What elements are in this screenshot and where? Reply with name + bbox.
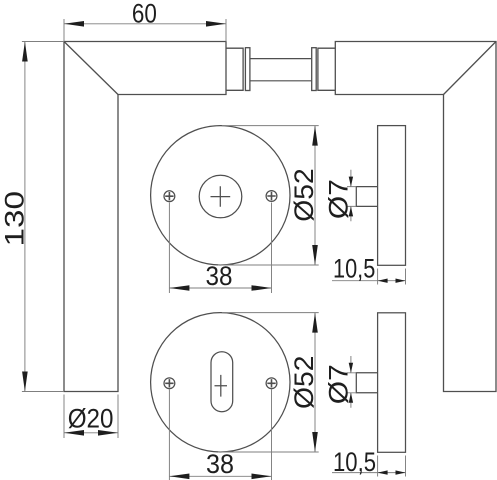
svg-text:Ø7: Ø7 — [323, 364, 353, 404]
rosette 2 right screw — [266, 378, 277, 389]
rosette 2 dim 38 arrow left — [169, 474, 189, 480]
dimension D20 line — [64, 432, 118, 434]
rosette 1 dim 38 extension lines — [169, 203, 271, 294]
rosette 1 left screw — [164, 191, 175, 202]
left neck step — [226, 48, 243, 90]
dimension D20 arrow right — [98, 430, 118, 436]
dimension 130 extension lines — [22, 42, 64, 392]
rosette 1 dim 38 arrow left — [169, 285, 189, 291]
side view 1 dim 10,5 arrow left — [378, 279, 388, 283]
rosette 1 D52 arrow up — [312, 126, 318, 146]
side view 2 D7 extension lines — [347, 373, 356, 393]
dimension D20 extension lines — [64, 395, 118, 439]
side view 1 rosette body — [378, 126, 406, 266]
rosette 2 D52 arrow up — [312, 313, 318, 333]
rosette 1 inner circle — [199, 175, 242, 218]
left handle outline (plan view) — [64, 42, 226, 392]
side view 1 dim 10,5 extension lines — [378, 269, 406, 285]
rosette 1 center cross — [211, 186, 231, 207]
side view 2 spindle stub — [356, 373, 377, 393]
dimension D20 arrow left — [64, 430, 84, 436]
rosette 1 dim 38 line — [169, 287, 271, 289]
svg-text:Ø52: Ø52 — [289, 168, 319, 222]
side view 2 D7 dimension lines — [350, 356, 352, 408]
rosette 1 D52 extension lines — [218, 126, 319, 265]
rosette 2 D52 extension lines — [218, 313, 319, 452]
svg-text:Ø20: Ø20 — [68, 403, 114, 433]
side view 1 spindle stub — [356, 187, 377, 207]
side view 2 dim 10,5 arrow left — [378, 470, 388, 474]
side view 1 D7 dimension lines — [350, 170, 352, 222]
rosette 1 right screw — [266, 191, 277, 202]
rosette 2 left screw — [164, 378, 175, 389]
side view 2 D7 arrow up — [349, 393, 353, 403]
right handle miter line — [444, 42, 497, 95]
rosette 2 outer circle — [151, 313, 290, 452]
dimension 60 line — [64, 23, 226, 25]
left handle miter line — [64, 42, 118, 95]
dimension 60 extension lines — [64, 19, 226, 42]
left collar — [245, 48, 250, 91]
rosette 1 outer circle — [151, 126, 290, 265]
right neck step — [318, 48, 335, 90]
svg-text:10,5: 10,5 — [333, 253, 375, 283]
right handle outline (plan view) — [335, 42, 496, 392]
side view 2 dim 10,5 extension lines — [378, 456, 406, 477]
svg-text:38: 38 — [206, 261, 233, 291]
svg-text:Ø7: Ø7 — [323, 179, 353, 219]
svg-text:130: 130 — [0, 191, 30, 247]
side view 1 D7 extension lines — [347, 187, 356, 207]
rosette 2 center cross — [215, 375, 228, 397]
rosette 2 D52 dimension line — [314, 313, 316, 452]
dimension 130 line — [24, 42, 26, 392]
side view 1 D7 arrow up — [349, 206, 353, 216]
side view 2 dim 10,5 arrow right — [396, 470, 406, 474]
dimension 130 arrow down — [22, 372, 28, 392]
side view 2 D7 arrow down — [349, 363, 353, 373]
side view 2 dim 10,5 line — [332, 472, 406, 474]
rosette 2 D52 arrow down — [312, 432, 318, 452]
rosette 2 dim 38 extension lines — [169, 390, 271, 480]
spindle — [250, 59, 311, 81]
side view 2 rosette body — [378, 313, 406, 453]
rosette 1 dim 38 arrow right — [252, 285, 272, 291]
rosette 1 D52 dimension line — [314, 126, 316, 265]
right collar — [312, 48, 317, 91]
svg-text:60: 60 — [132, 0, 157, 29]
dimension 60 arrow right — [206, 21, 226, 27]
rosette 2 dim 38 line — [169, 475, 271, 477]
svg-text:38: 38 — [206, 449, 234, 479]
svg-text:10,5: 10,5 — [333, 447, 376, 477]
rosette 2 dim 38 arrow right — [252, 474, 272, 480]
dimension 130 arrow up — [22, 42, 28, 62]
rosette 2 keyhole slot — [211, 352, 233, 412]
rosette 1 D52 arrow down — [312, 245, 318, 265]
side view 1 dim 10,5 arrow right — [396, 279, 406, 283]
svg-text:Ø52: Ø52 — [289, 356, 319, 410]
dimension 60 arrow left — [64, 21, 84, 27]
side view 1 dim 10,5 line — [332, 280, 406, 282]
side view 1 D7 arrow down — [349, 177, 353, 187]
